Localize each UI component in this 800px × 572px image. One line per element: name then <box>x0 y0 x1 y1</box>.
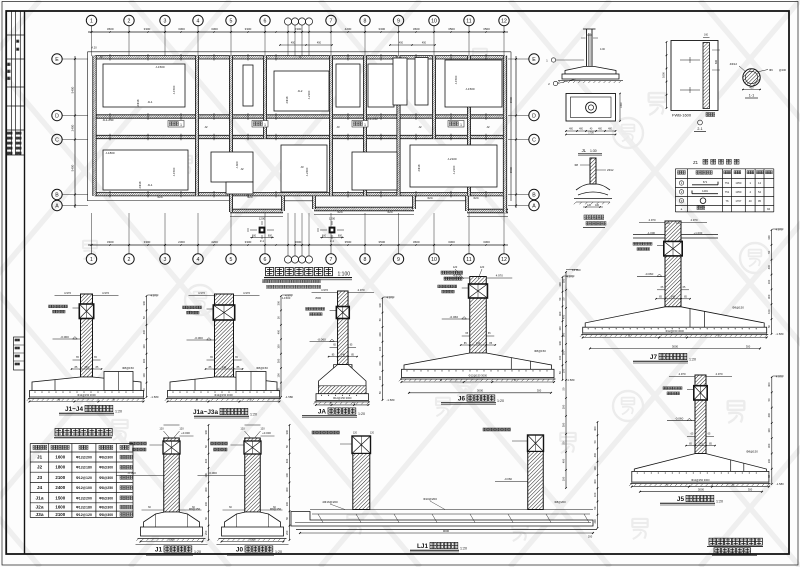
title strip cell text <box>8 63 11 66</box>
svg-text:11: 11 <box>466 19 471 25</box>
svg-text:76: 76 <box>726 199 729 203</box>
svg-text:400: 400 <box>204 458 208 463</box>
svg-text:100: 100 <box>561 368 565 373</box>
wall vertical grid6 upper <box>263 56 266 139</box>
svg-text:4.970: 4.970 <box>567 275 574 279</box>
flagpole base detail: top dim <box>546 29 623 86</box>
svg-text:-1.580: -1.580 <box>776 482 784 486</box>
svg-text:3000: 3000 <box>168 537 175 541</box>
svg-text:300: 300 <box>378 303 382 308</box>
svg-text:J7: J7 <box>650 354 658 361</box>
svg-text:2100: 2100 <box>55 512 65 517</box>
svg-text:120: 120 <box>159 427 164 431</box>
svg-text:400: 400 <box>285 458 289 463</box>
svg-text:12: 12 <box>501 19 507 25</box>
svg-text:120: 120 <box>179 427 184 431</box>
svg-text:J500: J500 <box>315 296 322 300</box>
svg-text:J2: J2 <box>418 125 422 129</box>
svg-text:4.970: 4.970 <box>649 218 656 222</box>
svg-text:160: 160 <box>704 34 709 37</box>
svg-text:1: 1 <box>90 257 93 263</box>
svg-text:120: 120 <box>480 265 485 269</box>
svg-text:300: 300 <box>276 300 280 305</box>
svg-text:3300: 3300 <box>378 27 385 31</box>
svg-text:J-1500: J-1500 <box>155 65 165 69</box>
svg-text:J5: J5 <box>677 496 685 503</box>
svg-text:450: 450 <box>317 42 322 45</box>
svg-text:Φ8@250: Φ8@250 <box>99 486 113 490</box>
svg-text:800: 800 <box>715 59 718 64</box>
plan bottom dimension mid ticks <box>109 244 110 245</box>
svg-text:B: B <box>196 397 198 401</box>
room R9 narrow <box>243 65 253 106</box>
svg-text:3300: 3300 <box>144 240 151 244</box>
svg-text:B: B <box>55 193 59 199</box>
strip footing LJ1: right dimension chain <box>291 421 598 552</box>
svg-text:B: B <box>666 482 668 486</box>
svg-text:300: 300 <box>285 487 289 492</box>
svg-text:4.970: 4.970 <box>496 274 503 278</box>
svg-text:1600: 1600 <box>55 505 65 510</box>
svg-text:3500: 3500 <box>483 27 490 31</box>
svg-text:-0.060: -0.060 <box>127 471 136 475</box>
svg-text:3300: 3300 <box>245 240 252 244</box>
wall band middle upper <box>95 115 506 118</box>
svg-text:Φ12@150 3000: Φ12@150 3000 <box>214 393 233 397</box>
svg-text:3300: 3300 <box>144 27 151 31</box>
svg-text:1491: 1491 <box>702 189 708 193</box>
svg-text:J-1800: J-1800 <box>105 151 115 155</box>
svg-text:A.20: A.20 <box>91 46 97 50</box>
svg-text:2100: 2100 <box>55 475 65 480</box>
svg-text:2Φ18: 2Φ18 <box>136 99 140 106</box>
svg-text:Φ12@120: Φ12@120 <box>76 476 92 480</box>
plan title underline <box>264 277 352 279</box>
svg-text:Φ12@150 3000: Φ12@150 3000 <box>333 396 352 400</box>
svg-text:120: 120 <box>260 427 265 431</box>
footing detail J1-bottom: title underline <box>117 424 210 555</box>
svg-text:1:30: 1:30 <box>590 149 597 153</box>
FWB-1600 detail: right small dims <box>662 34 721 132</box>
svg-text:5400: 5400 <box>71 86 75 93</box>
svg-text:3600: 3600 <box>295 240 302 244</box>
svg-text:4200: 4200 <box>345 27 352 31</box>
svg-text:FWB-1600: FWB-1600 <box>672 113 692 118</box>
svg-text:100: 100 <box>558 355 562 360</box>
svg-text:6: 6 <box>264 19 267 25</box>
grid bubbles right column <box>529 54 539 64</box>
svg-text:J-600: J-600 <box>235 161 239 168</box>
svg-text:Φ12@120: Φ12@120 <box>76 513 92 517</box>
wall band bottom step middle <box>314 207 414 211</box>
svg-text:300: 300 <box>748 488 753 492</box>
svg-text:Φ6: Φ6 <box>769 68 773 72</box>
svg-text:1:20: 1:20 <box>497 399 504 403</box>
svg-text:8: 8 <box>364 257 367 263</box>
svg-text:J-1500: J-1500 <box>454 75 458 84</box>
svg-text:3300: 3300 <box>211 27 218 31</box>
svg-text:624: 624 <box>387 210 392 214</box>
svg-text:100: 100 <box>558 326 562 331</box>
svg-text:300: 300 <box>767 235 771 240</box>
svg-text:Φ8@150: Φ8@150 <box>732 306 744 310</box>
svg-text:JL1: JL1 <box>148 183 153 187</box>
svg-text:JL1-240: JL1-240 <box>103 118 114 122</box>
wall vertical grid8 <box>363 56 366 196</box>
svg-text:Φ12@150 3000: Φ12@150 3000 <box>469 373 488 377</box>
svg-text:4.970: 4.970 <box>198 291 205 295</box>
svg-text:B: B <box>532 193 536 199</box>
plan note line 2 <box>267 285 270 288</box>
svg-text:E: E <box>55 57 59 63</box>
footing detail J1a-J3a: title underline <box>165 291 294 418</box>
svg-text:JA: JA <box>318 409 327 416</box>
svg-text:Φ8@150: Φ8@150 <box>746 450 758 454</box>
svg-text:B: B <box>628 333 630 337</box>
svg-text:J3: J3 <box>37 475 43 481</box>
grid leader lines top <box>91 32 93 56</box>
svg-text:4.970: 4.970 <box>691 218 698 222</box>
svg-text:+1.000: +1.000 <box>694 231 703 235</box>
svg-text:120: 120 <box>587 204 592 207</box>
svg-text:4.970: 4.970 <box>776 228 783 232</box>
svg-text:4.970: 4.970 <box>102 291 109 295</box>
svg-text:Φ8@300: Φ8@300 <box>99 476 113 480</box>
svg-text:671: 671 <box>703 180 708 184</box>
svg-text:Φ8@150: Φ8@150 <box>122 366 134 370</box>
svg-text:300: 300 <box>142 358 146 363</box>
svg-text:100: 100 <box>276 373 280 378</box>
svg-text:300: 300 <box>746 344 751 348</box>
svg-text:1000: 1000 <box>620 102 623 108</box>
svg-text:Z1: Z1 <box>693 160 699 165</box>
svg-text:J-1500: J-1500 <box>172 85 176 94</box>
svg-text:3000: 3000 <box>672 344 679 348</box>
svg-text:400: 400 <box>767 412 771 417</box>
svg-text:J-2100: J-2100 <box>307 90 311 99</box>
svg-text:100: 100 <box>767 458 771 463</box>
svg-text:3500: 3500 <box>448 27 455 31</box>
svg-text:A: A <box>532 204 536 210</box>
svg-text:2: 2 <box>128 19 131 25</box>
svg-text:1700: 1700 <box>588 132 594 135</box>
svg-text:624: 624 <box>427 196 432 200</box>
svg-text:600: 600 <box>338 235 343 238</box>
svg-text:1500: 1500 <box>509 96 513 103</box>
svg-text:1: 1 <box>460 123 462 127</box>
svg-text:400: 400 <box>561 314 565 319</box>
svg-text:3500: 3500 <box>345 240 352 244</box>
svg-text:100: 100 <box>142 373 146 378</box>
svg-text:100: 100 <box>378 346 382 351</box>
svg-text:Φ8@300: Φ8@300 <box>99 513 113 517</box>
svg-text:5: 5 <box>230 257 233 263</box>
svg-text:300: 300 <box>561 422 565 427</box>
svg-text:100: 100 <box>593 492 597 497</box>
svg-text:4200: 4200 <box>211 240 218 244</box>
svg-text:1: 1 <box>264 123 266 127</box>
watermark logo glyphs <box>83 49 770 553</box>
svg-text:-0.060: -0.060 <box>449 315 458 319</box>
svg-text:300: 300 <box>593 426 597 431</box>
footing detail J5: left tall dimension chain <box>565 272 567 488</box>
svg-text:J3: J3 <box>300 165 304 169</box>
svg-text:2: 2 <box>128 257 131 263</box>
svg-text:J-1500: J-1500 <box>465 87 475 91</box>
svg-text:1: 1 <box>180 123 182 127</box>
svg-text:240: 240 <box>671 295 676 299</box>
svg-text:1500: 1500 <box>55 495 65 500</box>
room R6 narrow <box>415 58 428 106</box>
svg-text:2-1: 2-1 <box>697 127 702 131</box>
svg-text:B: B <box>353 401 355 405</box>
svg-text:JL: JL <box>582 148 587 153</box>
svg-text:Φ8@300: Φ8@300 <box>99 466 113 470</box>
svg-text:120: 120 <box>353 432 358 435</box>
svg-text:200: 200 <box>204 530 208 535</box>
svg-text:400: 400 <box>767 264 771 269</box>
svg-text:300: 300 <box>285 429 289 434</box>
svg-text:100: 100 <box>561 332 565 337</box>
svg-text:LJ1: LJ1 <box>417 543 428 550</box>
svg-text:J3: J3 <box>336 125 340 129</box>
svg-text:Φ12@180: Φ12@180 <box>76 466 92 470</box>
svg-text:100: 100 <box>204 501 208 506</box>
wall vertical grid5 <box>229 56 232 212</box>
svg-text:1:20: 1:20 <box>716 500 723 504</box>
svg-text:450: 450 <box>399 42 404 45</box>
svg-text:7: 7 <box>330 19 333 25</box>
svg-text:J-2100: J-2100 <box>452 165 456 174</box>
svg-text:2400: 2400 <box>55 485 65 490</box>
svg-text:300: 300 <box>767 443 771 448</box>
svg-text:C: C <box>55 138 59 144</box>
title strip dense signature block <box>7 132 9 134</box>
svg-text:-0.060: -0.060 <box>645 272 654 276</box>
room R2 <box>103 150 188 190</box>
svg-text:3: 3 <box>164 257 167 263</box>
svg-text:100: 100 <box>285 501 289 506</box>
svg-text:E: E <box>532 57 536 63</box>
svg-text:B: B <box>718 333 720 337</box>
svg-text:-0.060: -0.060 <box>194 336 203 340</box>
svg-text:1:20: 1:20 <box>460 547 467 551</box>
svg-text:600: 600 <box>268 235 273 238</box>
svg-text:120: 120 <box>595 204 600 207</box>
svg-text:300: 300 <box>378 361 382 366</box>
flagpole footing plan: label <box>565 93 623 156</box>
svg-text:Φ8@200: Φ8@200 <box>554 500 566 504</box>
svg-text:751: 751 <box>725 190 730 194</box>
room R12b <box>368 64 394 107</box>
svg-text:J2a: J2a <box>35 505 43 511</box>
svg-text:J1: J1 <box>37 455 43 461</box>
wall band cross ticks <box>109 54 111 60</box>
svg-text:B: B <box>250 397 252 401</box>
svg-text:400: 400 <box>593 452 597 457</box>
svg-text:4.970: 4.970 <box>151 294 158 298</box>
svg-text:A: A <box>55 204 59 210</box>
svg-text:-1.580: -1.580 <box>567 378 575 382</box>
svg-text:4.970: 4.970 <box>285 294 292 298</box>
svg-text:624: 624 <box>157 195 162 199</box>
svg-text:Φ12@200: Φ12@200 <box>76 496 92 500</box>
svg-text:4.970: 4.970 <box>387 296 394 300</box>
svg-text:3300: 3300 <box>245 27 252 31</box>
wall vertical right edge <box>503 56 506 213</box>
svg-text:-1.580: -1.580 <box>285 395 293 399</box>
svg-text:200: 200 <box>588 535 593 539</box>
svg-text:624: 624 <box>247 195 252 199</box>
svg-text:100: 100 <box>561 476 565 481</box>
footing detail J7: floor slab lines <box>633 234 665 236</box>
svg-text:B: B <box>330 401 332 405</box>
title strip horizontal dividers <box>6 34 24 36</box>
room R12a <box>336 64 360 107</box>
room R1 <box>103 64 185 107</box>
svg-text:120: 120 <box>370 432 375 435</box>
room R11 <box>352 152 397 190</box>
svg-text:4Φ12: 4Φ12 <box>730 62 738 66</box>
grid bubbles bottom small cluster <box>284 256 291 263</box>
svg-text:Φ12@200: Φ12@200 <box>76 456 92 460</box>
svg-text:1600: 1600 <box>55 455 65 460</box>
svg-text:Z-1: Z-1 <box>260 239 265 243</box>
wall vertical grid10 upper <box>432 56 435 139</box>
svg-text:4Φ16@200: 4Φ16@200 <box>322 500 338 504</box>
plan middle band boxed labels <box>168 121 184 128</box>
plan top dimension line <box>88 31 508 33</box>
svg-text:54: 54 <box>758 190 761 194</box>
svg-text:9: 9 <box>397 19 400 25</box>
svg-text:100: 100 <box>593 466 597 471</box>
svg-text:-0.060: -0.060 <box>60 335 69 339</box>
room R7 <box>445 60 502 107</box>
svg-text:2Φ18: 2Φ18 <box>285 96 289 103</box>
footing detail J6: upper leader labels <box>441 265 485 280</box>
svg-text:-1.580: -1.580 <box>776 332 784 336</box>
svg-text:1:20: 1:20 <box>275 550 282 554</box>
svg-text:B: B <box>733 482 735 486</box>
svg-text:100: 100 <box>285 473 289 478</box>
svg-text:9000: 9000 <box>443 529 450 533</box>
svg-text:14.000: 14.000 <box>572 268 581 272</box>
svg-text:300: 300 <box>204 487 208 492</box>
svg-text:4.970: 4.970 <box>776 375 783 379</box>
svg-text:B: B <box>113 397 115 401</box>
footing detail JA: title underline <box>302 288 395 418</box>
svg-text:1: 1 <box>364 123 366 127</box>
svg-text:240: 240 <box>698 441 703 445</box>
svg-text:C: C <box>532 138 536 144</box>
svg-text:10: 10 <box>431 257 437 263</box>
svg-text:J1a~J3a: J1a~J3a <box>193 409 219 416</box>
svg-text:300: 300 <box>558 282 562 287</box>
svg-text:4.970: 4.970 <box>358 288 365 292</box>
svg-text:2Φ18: 2Φ18 <box>417 164 421 171</box>
svg-text:-1.580: -1.580 <box>387 398 395 402</box>
svg-text:JL2: JL2 <box>298 89 303 93</box>
svg-text:B: B <box>58 397 60 401</box>
svg-text:1767: 1767 <box>735 199 741 203</box>
svg-text:300: 300 <box>767 294 771 299</box>
svg-text:7: 7 <box>330 257 333 263</box>
svg-text:95: 95 <box>758 199 761 203</box>
svg-text:400: 400 <box>561 458 565 463</box>
svg-text:4.970: 4.970 <box>321 288 328 292</box>
svg-text:3: 3 <box>164 19 167 25</box>
svg-text:J6: J6 <box>458 396 466 403</box>
svg-text:1:20: 1:20 <box>358 412 365 416</box>
svg-text:Φ8@300: Φ8@300 <box>99 456 113 460</box>
svg-text:Φ12@150 3000: Φ12@150 3000 <box>77 393 96 397</box>
footing detail J1-J4: title underline <box>27 291 159 415</box>
svg-text:1600: 1600 <box>662 72 666 78</box>
svg-text:Φ12@100: Φ12@100 <box>76 486 92 490</box>
svg-text:J1: J1 <box>155 547 163 554</box>
svg-text:D: D <box>532 114 536 120</box>
plan bottom dimension line <box>88 244 508 246</box>
pier plan detail A <box>259 227 266 234</box>
pile section detail: section mark 1-1 <box>730 62 787 98</box>
svg-text:4.970: 4.970 <box>716 372 723 376</box>
svg-text:1:20: 1:20 <box>115 410 122 414</box>
svg-text:J-2400: J-2400 <box>305 167 309 176</box>
svg-text:1200: 1200 <box>329 217 336 221</box>
svg-text:2Φ18: 2Φ18 <box>138 181 142 188</box>
svg-text:12: 12 <box>501 257 507 263</box>
svg-text:1: 1 <box>90 19 93 25</box>
svg-text:10: 10 <box>431 19 437 25</box>
svg-text:3300: 3300 <box>483 240 490 244</box>
svg-text:-0.060: -0.060 <box>504 477 512 481</box>
svg-text:300: 300 <box>561 278 565 283</box>
plan note line 1 <box>263 280 266 283</box>
svg-text:J-2100: J-2100 <box>447 157 457 161</box>
svg-text:JL1: JL1 <box>148 100 153 104</box>
wall band bottom step left <box>230 209 283 213</box>
svg-text:J4: J4 <box>99 55 103 59</box>
svg-text:B: B <box>514 378 516 382</box>
svg-text:400: 400 <box>276 329 280 334</box>
svg-text:600: 600 <box>322 235 327 238</box>
svg-text:Φ12@150 3000: Φ12@150 3000 <box>691 478 710 482</box>
svg-text:5: 5 <box>230 19 233 25</box>
svg-text:300: 300 <box>276 358 280 363</box>
grid bubbles bottom row <box>86 254 96 264</box>
left title strip outer columns <box>24 11 26 554</box>
svg-text:J4: J4 <box>37 485 43 491</box>
plan top dimension mid ticks <box>109 31 110 32</box>
svg-text:Z-1: Z-1 <box>330 239 335 243</box>
svg-text:4.970: 4.970 <box>243 291 250 295</box>
svg-text:1350: 1350 <box>735 190 741 194</box>
svg-text:200: 200 <box>593 519 597 524</box>
svg-text:Φ8@150: Φ8@150 <box>534 349 546 353</box>
svg-text:3300: 3300 <box>178 27 185 31</box>
svg-text:J2: J2 <box>37 465 43 471</box>
svg-text:Φ8: Φ8 <box>574 163 578 167</box>
svg-text:4.970: 4.970 <box>64 291 71 295</box>
svg-text:4: 4 <box>197 19 200 25</box>
svg-text:1:100: 1:100 <box>338 272 351 278</box>
svg-text:240: 240 <box>84 365 89 369</box>
svg-text:400: 400 <box>142 329 146 334</box>
svg-text:J1~J4: J1~J4 <box>65 406 83 413</box>
footing detail J6: title underline <box>399 274 575 405</box>
svg-text:J4: J4 <box>298 55 302 59</box>
svg-text:300: 300 <box>593 479 597 484</box>
